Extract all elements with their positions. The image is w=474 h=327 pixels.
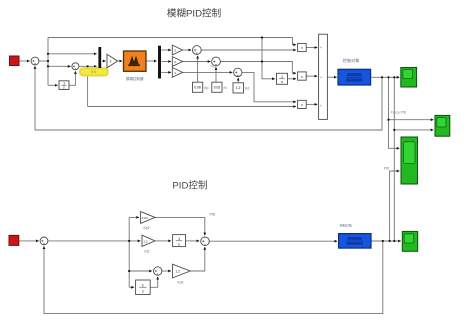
svg-text:+: + (320, 46, 322, 50)
wire gain to fuzzy block (118, 60, 123, 62)
wire demux to gain T3 (161, 71, 171, 73)
demux (158, 46, 161, 79)
wire demux to gain T2 (161, 61, 171, 63)
wire step1 to sum S1 (19, 60, 30, 62)
svg-text:Kd: Kd (245, 87, 249, 91)
wire branch vertical x129 (128, 217, 130, 287)
gain Ki2 (142, 235, 155, 253)
sum S7 (201, 213, 216, 246)
wire to sum S6 left (129, 270, 152, 272)
scope 2 (435, 115, 450, 136)
wire Kp2 out to sum S7 top (155, 217, 205, 235)
saturation (yellow) (80, 68, 108, 75)
wire fuzzy out to scope3 in1 (389, 77, 400, 148)
wire plant2 out to scope4 (371, 240, 401, 242)
sum S6 (154, 267, 162, 275)
wire step2 to sum S8 (19, 240, 39, 242)
wire const Kp up (197, 56, 199, 82)
svg-text:PID: PID (210, 213, 216, 217)
wire S1 out (39, 60, 48, 62)
sum S8 (40, 237, 48, 245)
wire integrator out to P2 (288, 78, 297, 80)
wire S6 out to Kd2 gain (162, 270, 171, 272)
wire P3 to add (306, 103, 317, 105)
fuzzy controller block (124, 51, 147, 81)
svg-text:s: s (281, 80, 283, 84)
gain Ke (107, 54, 118, 68)
wire const Ki up (215, 67, 217, 82)
integrator I2 (173, 235, 186, 247)
unit delay D1 (59, 81, 69, 90)
wire S7 out to plant2 (209, 240, 337, 242)
wire integrator2 out to S7 left (186, 240, 200, 242)
gain T3 (172, 68, 182, 78)
svg-text:控制对象: 控制对象 (343, 57, 360, 64)
svg-text:模糊PID控制: 模糊PID控制 (167, 8, 221, 20)
plant 1 (blue transfer fcn) (338, 57, 371, 85)
svg-text:控制对象: 控制对象 (340, 222, 352, 227)
gain Kd2 (173, 264, 191, 284)
wire T1 to sum S3 (183, 49, 192, 51)
mux (98, 47, 101, 68)
plant 2 (blue transfer fcn) (339, 222, 371, 248)
wire e drop to product P1 (293, 38, 297, 45)
wire pid out to scope3 in2 (390, 171, 400, 241)
svg-text:Kd2: Kd2 (178, 280, 184, 284)
svg-text:PID: PID (211, 65, 217, 69)
svg-text:模糊控制器: 模糊控制器 (126, 76, 144, 81)
svg-text:Ki: Ki (224, 86, 227, 90)
wire tap to scope2 in2 (394, 129, 433, 131)
add block (319, 34, 328, 119)
wire S5 out to P3 top (242, 72, 296, 101)
wire feedback1 down (35, 66, 382, 130)
svg-text:z: z (142, 288, 144, 293)
wire add out to plant1 (327, 76, 336, 78)
wire mux out to gain (102, 60, 106, 62)
wire feedback2 down (44, 241, 383, 314)
svg-text:1.2: 1.2 (176, 270, 181, 274)
wire to unit delay2 (129, 286, 134, 288)
svg-text:Ki2: Ki2 (145, 249, 150, 253)
wire branch vertical x48 (47, 38, 49, 86)
svg-text:1: 1 (178, 237, 180, 241)
constant Kp0 (193, 82, 209, 92)
unit delay D2 (136, 280, 151, 295)
svg-text:2.04: 2.04 (142, 216, 148, 220)
product P3 (298, 100, 307, 108)
wire tap to scope2 in1 (389, 119, 434, 121)
svg-text:Kp2: Kp2 (144, 226, 150, 230)
sum S3 (192, 46, 201, 55)
wire T3 to sum S5 (183, 71, 233, 73)
gain T2 (172, 57, 182, 67)
svg-text:1.2: 1.2 (236, 86, 241, 90)
wire P2 to add (306, 75, 317, 77)
wire ec to product P3 (88, 106, 296, 108)
constant Ki0 (212, 82, 227, 92)
wire S8 out to Ki2 gain (48, 240, 140, 242)
svg-text:z: z (63, 86, 65, 90)
sum S4 (211, 57, 221, 68)
svg-text:1: 1 (63, 82, 65, 86)
wire Kd2 out to S7 bottom (190, 247, 205, 271)
svg-text:Kp: Kp (204, 86, 208, 90)
svg-text:s: s (178, 242, 180, 246)
svg-text:1: 1 (281, 75, 283, 79)
svg-text:0.03: 0.03 (214, 86, 221, 90)
wire vertical x394 (393, 77, 395, 241)
wire delay2 out to S6 bottom (150, 277, 158, 288)
wire e to sum S2 (48, 65, 71, 67)
product P2 (298, 72, 307, 80)
sum S2 (72, 63, 79, 70)
svg-text:Fuzzy PID: Fuzzy PID (391, 110, 407, 114)
sum S5 (234, 68, 242, 76)
wire delay out to S2 (69, 71, 75, 85)
step input 2 (9, 235, 19, 245)
scope 3 (401, 137, 418, 184)
svg-text:PID控制: PID控制 (172, 179, 207, 191)
wire P1 to add (306, 47, 317, 49)
step input 1 (10, 56, 20, 66)
scope 4 (402, 231, 417, 251)
integrator I1 (277, 73, 288, 84)
wire Ki2 out to integrator2 (155, 240, 171, 242)
wire plant1 out to scope1 (371, 76, 400, 78)
wire e to integrator drop (262, 38, 275, 79)
wire e top line (48, 37, 293, 39)
wire T2 to sum S4 (183, 61, 211, 63)
wire const Kd up (237, 78, 239, 83)
wire ec down (87, 66, 89, 106)
svg-text:3: 3 (110, 60, 112, 64)
svg-text:1.2: 1.2 (143, 239, 148, 243)
constant Kd0 (233, 83, 249, 93)
svg-text:+: + (320, 76, 322, 80)
wire to Kp2 gain (129, 216, 139, 218)
wire S4 out to P2 top (220, 62, 296, 74)
scope 1 (401, 68, 417, 88)
wire S2 out to mux in2 (79, 65, 97, 67)
wire fuzzy to demux (146, 60, 157, 62)
svg-text:0 0: 0 0 (91, 70, 96, 74)
wire S3 out to P1 (201, 49, 296, 51)
gain T1 (172, 45, 182, 55)
gain Kp2 (141, 212, 155, 230)
svg-text:0.06: 0.06 (194, 86, 201, 90)
svg-text:PID: PID (384, 167, 390, 171)
sum S1 (31, 57, 39, 65)
product P1 (298, 43, 307, 51)
svg-text:+: + (320, 104, 322, 108)
wire demux to gain T1 (161, 49, 171, 51)
wire e to unit delay (48, 84, 58, 86)
wire e to mux in1 (48, 53, 97, 55)
